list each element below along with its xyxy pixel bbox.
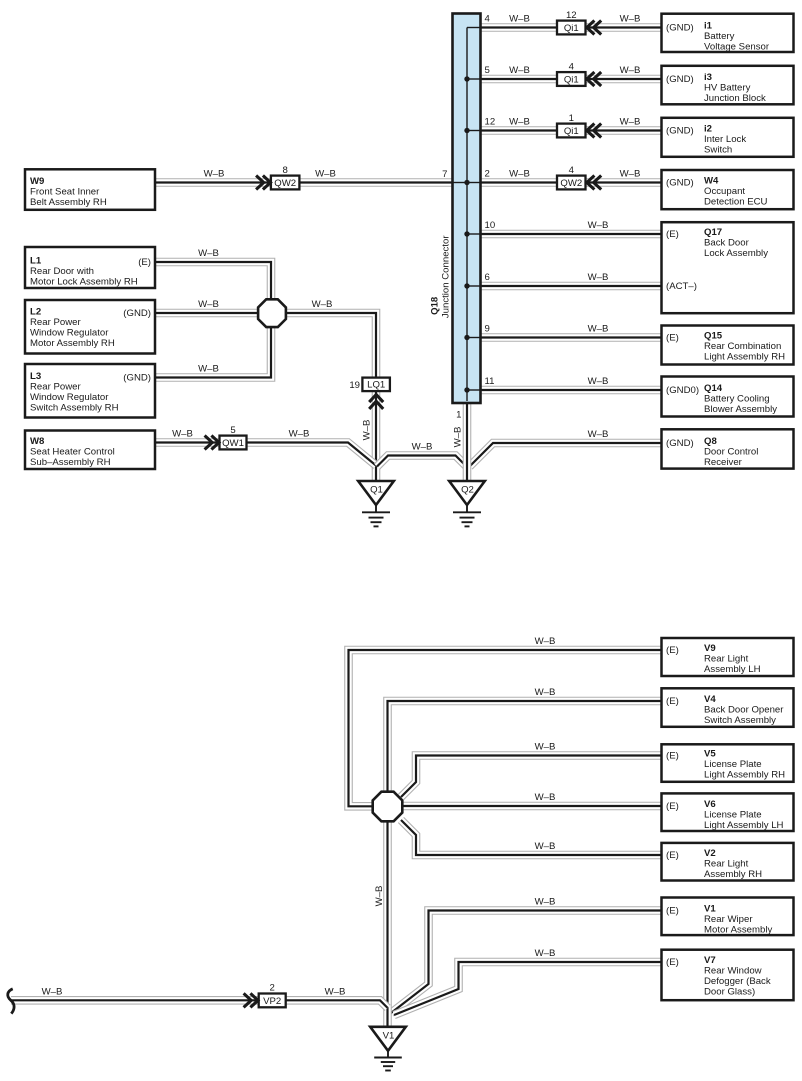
svg-text:(GND): (GND) bbox=[666, 438, 694, 449]
svg-text:W–B: W–B bbox=[535, 792, 556, 803]
svg-text:V1: V1 bbox=[704, 904, 716, 915]
svg-text:L2: L2 bbox=[30, 307, 41, 318]
svg-text:V5: V5 bbox=[704, 749, 716, 760]
connector QW2 pin 8 bbox=[271, 176, 300, 190]
svg-text:W–B: W–B bbox=[588, 429, 609, 440]
svg-text:HV Battery: HV Battery bbox=[704, 83, 751, 94]
svg-text:V2: V2 bbox=[704, 848, 716, 859]
svg-text:W–B: W–B bbox=[412, 442, 433, 453]
svg-text:QW2: QW2 bbox=[274, 178, 296, 189]
svg-text:Motor Assembly RH: Motor Assembly RH bbox=[30, 338, 115, 349]
svg-text:W–B: W–B bbox=[204, 169, 225, 180]
svg-text:Assembly RH: Assembly RH bbox=[704, 869, 762, 880]
svg-text:Q1: Q1 bbox=[370, 485, 383, 496]
svg-text:W–B: W–B bbox=[172, 429, 193, 440]
component W9 Front Seat Inner Belt Assembly RH bbox=[25, 169, 155, 210]
wire V1 to ground V1 bbox=[391, 911, 663, 1014]
chevron arrows Qi1 at row y=130.5 bbox=[587, 124, 601, 138]
component V5 License Plate Light Assembly RH bbox=[662, 744, 794, 782]
svg-text:(E): (E) bbox=[666, 850, 679, 861]
junction dot Q18 pin 10 bbox=[464, 231, 469, 236]
svg-text:Light Assembly LH: Light Assembly LH bbox=[704, 820, 784, 831]
svg-text:W–B: W–B bbox=[535, 841, 556, 852]
svg-text:Lock Assembly: Lock Assembly bbox=[704, 248, 768, 259]
svg-text:Rear Light: Rear Light bbox=[704, 654, 749, 665]
component V9 Rear Light Assembly LH bbox=[662, 638, 794, 676]
svg-text:W–B: W–B bbox=[198, 364, 219, 375]
svg-text:W–B: W–B bbox=[620, 117, 641, 128]
ground point V1 bbox=[370, 1027, 406, 1071]
svg-text:Detection ECU: Detection ECU bbox=[704, 196, 768, 207]
svg-text:W–B: W–B bbox=[588, 272, 609, 283]
svg-text:Light Assembly RH: Light Assembly RH bbox=[704, 769, 785, 780]
svg-text:i2: i2 bbox=[704, 124, 712, 135]
svg-text:Occupant: Occupant bbox=[704, 186, 745, 197]
svg-text:5: 5 bbox=[230, 425, 235, 436]
svg-text:Battery Cooling: Battery Cooling bbox=[704, 393, 770, 404]
junction octagon (V-wires splice) bbox=[373, 792, 403, 822]
svg-text:Q2: Q2 bbox=[461, 485, 474, 496]
svg-text:Q17: Q17 bbox=[704, 227, 722, 238]
svg-text:W–B: W–B bbox=[289, 429, 310, 440]
svg-text:W–B: W–B bbox=[453, 427, 464, 448]
svg-text:6: 6 bbox=[485, 272, 490, 283]
svg-text:Rear Combination: Rear Combination bbox=[704, 341, 781, 352]
svg-text:Front Seat Inner: Front Seat Inner bbox=[30, 186, 100, 197]
wire V4 to bottom octagon bbox=[388, 701, 664, 793]
svg-text:Receiver: Receiver bbox=[704, 457, 743, 468]
junction dot Q18 pin 11 bbox=[464, 387, 469, 392]
svg-text:1: 1 bbox=[456, 410, 461, 421]
svg-text:8: 8 bbox=[283, 165, 288, 176]
svg-text:(ACT–): (ACT–) bbox=[666, 281, 697, 292]
svg-text:W–B: W–B bbox=[509, 117, 530, 128]
svg-text:W–B: W–B bbox=[535, 687, 556, 698]
svg-text:W–B: W–B bbox=[620, 169, 641, 180]
wire Q8 to ground Q2 bbox=[470, 443, 664, 467]
svg-text:Q8: Q8 bbox=[704, 436, 717, 447]
svg-text:1: 1 bbox=[569, 113, 574, 124]
ground point Q2 bbox=[449, 481, 485, 526]
svg-text:W–B: W–B bbox=[374, 886, 385, 907]
Q18 internal stub pin 2 bbox=[467, 182, 481, 184]
svg-text:Voltage Sensor: Voltage Sensor bbox=[704, 41, 770, 52]
junction dot Q18 pin 2/7 bbox=[464, 180, 469, 185]
svg-text:9: 9 bbox=[485, 324, 490, 335]
svg-text:Qi1: Qi1 bbox=[564, 126, 579, 137]
wire V9 to bottom octagon bbox=[349, 650, 664, 806]
svg-text:Rear Window: Rear Window bbox=[704, 966, 762, 977]
chevron arrows LQ1 bbox=[369, 395, 383, 409]
svg-text:2: 2 bbox=[485, 169, 490, 180]
svg-text:(E): (E) bbox=[666, 801, 679, 812]
svg-text:W–B: W–B bbox=[535, 742, 556, 753]
svg-text:(E): (E) bbox=[666, 906, 679, 917]
connector VP2 pin 2 bbox=[259, 994, 286, 1008]
svg-text:19: 19 bbox=[349, 380, 360, 391]
svg-text:12: 12 bbox=[566, 10, 577, 21]
svg-text:(GND): (GND) bbox=[666, 178, 694, 189]
svg-text:Qi1: Qi1 bbox=[564, 23, 579, 34]
connector Qi1 at row y=27.5 bbox=[557, 21, 586, 35]
Q18 internal stub pin 6 bbox=[467, 285, 481, 287]
svg-text:i3: i3 bbox=[704, 72, 712, 83]
svg-text:W–B: W–B bbox=[312, 299, 333, 310]
component i1 Battery Voltage Sensor bbox=[662, 14, 794, 53]
svg-text:2: 2 bbox=[270, 983, 275, 994]
component L1 Rear Door with Motor Lock Assembly RH bbox=[25, 247, 155, 288]
wire Q18 pin 5 to Qi1 to i3 bbox=[479, 75, 664, 84]
svg-text:Rear Power: Rear Power bbox=[30, 381, 81, 392]
svg-text:i1: i1 bbox=[704, 21, 713, 32]
svg-text:(GND): (GND) bbox=[123, 308, 151, 319]
wire W8 to QW1 to ground Q1 bbox=[155, 443, 376, 466]
svg-text:Assembly LH: Assembly LH bbox=[704, 664, 761, 675]
connector LQ1 pin 19 bbox=[362, 378, 390, 392]
svg-text:Back Door Opener: Back Door Opener bbox=[704, 705, 784, 716]
svg-text:(E): (E) bbox=[666, 696, 679, 707]
junction dot Q18 pin 9 bbox=[464, 335, 469, 340]
svg-text:W–B: W–B bbox=[509, 65, 530, 76]
svg-text:V4: V4 bbox=[704, 694, 716, 705]
svg-text:Window Regulator: Window Regulator bbox=[30, 392, 109, 403]
svg-text:12: 12 bbox=[485, 117, 496, 128]
wire W9 to QW2 to Q18 pin 7 bbox=[155, 178, 455, 187]
connector QW2 at row y=182.5 bbox=[557, 176, 586, 190]
svg-text:Light Assembly RH: Light Assembly RH bbox=[704, 351, 785, 362]
component Q8 Door Control Receiver bbox=[662, 429, 794, 468]
svg-text:W–B: W–B bbox=[362, 420, 373, 441]
component Q17 Back Door Lock Assembly bbox=[662, 222, 794, 313]
Q18 internal stub pin 9 bbox=[467, 337, 481, 339]
svg-text:W–B: W–B bbox=[620, 65, 641, 76]
svg-text:Switch Assembly RH: Switch Assembly RH bbox=[30, 402, 119, 413]
Q18 internal stub pin 11 bbox=[467, 389, 481, 391]
chevron arrows Qi1 at row y=27.5 bbox=[587, 21, 601, 35]
svg-text:Door Control: Door Control bbox=[704, 446, 758, 457]
wire Q18 pin 6 to Q17 (ACT-) bbox=[479, 282, 664, 291]
junction octagon (L1/L2/L3 splice) bbox=[258, 299, 286, 327]
svg-text:Q15: Q15 bbox=[704, 331, 723, 342]
Q18 internal stub pin 5 bbox=[467, 78, 481, 80]
wire V2 to bottom octagon bbox=[401, 820, 663, 855]
svg-text:Rear Door with: Rear Door with bbox=[30, 266, 94, 277]
svg-text:4: 4 bbox=[569, 61, 575, 72]
wire V5 to bottom octagon bbox=[401, 756, 663, 798]
svg-text:Junction Connector: Junction Connector bbox=[441, 235, 452, 318]
svg-text:Inter Lock: Inter Lock bbox=[704, 134, 746, 145]
svg-text:W–B: W–B bbox=[535, 636, 556, 647]
svg-text:Q14: Q14 bbox=[704, 383, 723, 394]
svg-text:Blower Assembly: Blower Assembly bbox=[704, 404, 777, 415]
svg-text:(GND): (GND) bbox=[666, 126, 694, 137]
component W4 Occupant Detection ECU bbox=[662, 170, 794, 209]
component V1 Rear Wiper Motor Assembly bbox=[662, 898, 794, 936]
wire Q18 pin 11 to Q14 bbox=[479, 386, 664, 395]
component Q15 Rear Combination Light Assembly RH bbox=[662, 326, 794, 365]
svg-text:W–B: W–B bbox=[509, 169, 530, 180]
component i2 Inter Lock Switch bbox=[662, 118, 794, 157]
svg-text:Battery: Battery bbox=[704, 31, 735, 42]
svg-text:(GND): (GND) bbox=[666, 23, 694, 34]
svg-text:W–B: W–B bbox=[42, 987, 63, 998]
svg-text:(E): (E) bbox=[138, 257, 151, 268]
svg-text:10: 10 bbox=[485, 220, 496, 231]
svg-text:W–B: W–B bbox=[315, 169, 336, 180]
svg-text:License Plate: License Plate bbox=[704, 759, 762, 770]
Q18 internal stub pin 4 bbox=[467, 27, 481, 29]
svg-text:(GND): (GND) bbox=[123, 373, 151, 384]
svg-text:V1: V1 bbox=[383, 1030, 395, 1041]
component V2 Rear Light Assembly RH bbox=[662, 843, 794, 881]
svg-text:5: 5 bbox=[485, 65, 490, 76]
svg-text:QW2: QW2 bbox=[560, 178, 582, 189]
connector Qi1 at row y=130.5 bbox=[557, 124, 586, 138]
svg-text:4: 4 bbox=[569, 165, 575, 176]
wire LQ1 to ground Q1 bbox=[372, 391, 381, 482]
connector QW1 pin 5 bbox=[220, 436, 247, 450]
svg-text:Seat Heater Control: Seat Heater Control bbox=[30, 446, 115, 457]
wire Q18 pin 10 to Q17 (E) bbox=[479, 230, 664, 239]
wire Q18 pin 9 to Q15 bbox=[479, 333, 664, 342]
junction connector Q18 bar bbox=[453, 14, 481, 404]
connector Qi1 at row y=79.0 bbox=[557, 72, 586, 86]
component i3 HV Battery Junction Block bbox=[662, 66, 794, 105]
chevron arrows Qi1 at row y=79.0 bbox=[587, 72, 601, 86]
svg-text:Motor Assembly: Motor Assembly bbox=[704, 924, 772, 935]
chevron arrows QW1 bbox=[205, 436, 219, 450]
svg-text:LQ1: LQ1 bbox=[367, 380, 385, 391]
component Q14 Battery Cooling Blower Assembly bbox=[662, 377, 794, 417]
svg-text:V7: V7 bbox=[704, 955, 716, 966]
svg-text:Defogger (Back: Defogger (Back bbox=[704, 976, 771, 987]
junction dot Q18 pin 6 bbox=[464, 283, 469, 288]
svg-text:L1: L1 bbox=[30, 256, 42, 267]
chevron arrows VP2 bbox=[244, 993, 258, 1007]
svg-text:W–B: W–B bbox=[198, 248, 219, 259]
svg-text:Q18: Q18 bbox=[430, 296, 441, 315]
component V4 Back Door Opener Switch Assembly bbox=[662, 688, 794, 727]
wire octagon to LQ1 bbox=[285, 313, 377, 379]
svg-text:(GND): (GND) bbox=[666, 74, 694, 85]
junction dot Q18 pin 12 bbox=[464, 128, 469, 133]
wire bottom octagon to ground V1 bbox=[383, 820, 392, 1028]
svg-text:Window Regulator: Window Regulator bbox=[30, 327, 109, 338]
component L2 Rear Power Window Regulator Motor Assembly RH bbox=[25, 300, 155, 354]
Q18 internal stub pin 7 bbox=[453, 182, 468, 184]
component W8 Seat Heater Control Sub-Assembly RH bbox=[25, 431, 155, 470]
svg-text:L3: L3 bbox=[30, 371, 41, 382]
svg-text:Belt Assembly RH: Belt Assembly RH bbox=[30, 197, 107, 208]
wire tie Q1 to Q2 bbox=[377, 456, 467, 467]
svg-text:W–B: W–B bbox=[588, 324, 609, 335]
svg-text:V6: V6 bbox=[704, 799, 716, 810]
junction dot Q18 pin 5 bbox=[464, 76, 469, 81]
svg-text:VP2: VP2 bbox=[263, 996, 281, 1007]
svg-text:(E): (E) bbox=[666, 957, 679, 968]
wire V6 to bottom octagon bbox=[401, 802, 663, 811]
wire L1 to junction octagon bbox=[155, 262, 271, 301]
svg-text:Switch: Switch bbox=[704, 144, 732, 155]
wire Q18 pin 12 to Qi1 to i2 bbox=[479, 126, 664, 135]
svg-text:W9: W9 bbox=[30, 176, 44, 187]
svg-text:Rear Wiper: Rear Wiper bbox=[704, 914, 753, 925]
svg-text:V9: V9 bbox=[704, 643, 716, 654]
wire-break symbol at left edge bbox=[8, 989, 14, 1014]
svg-text:W–B: W–B bbox=[198, 299, 219, 310]
component V7 Rear Window Defogger bbox=[662, 950, 794, 1001]
Q18 internal stub pin 10 bbox=[467, 233, 481, 235]
svg-text:W–B: W–B bbox=[588, 220, 609, 231]
wire Q18 pin 2 to QW2 to W4 bbox=[479, 178, 664, 187]
svg-text:Rear Light: Rear Light bbox=[704, 859, 749, 870]
wire V7 to ground V1 bbox=[394, 962, 663, 1015]
svg-text:License Plate: License Plate bbox=[704, 810, 762, 821]
svg-text:(E): (E) bbox=[666, 333, 679, 344]
svg-text:Motor Lock Assembly RH: Motor Lock Assembly RH bbox=[30, 276, 138, 287]
wire L2 to junction octagon bbox=[155, 309, 260, 318]
svg-text:Door Glass): Door Glass) bbox=[704, 986, 755, 997]
chevron arrows QW2 at row y=182.5 bbox=[587, 176, 601, 190]
svg-text:4: 4 bbox=[485, 14, 491, 25]
svg-text:(E): (E) bbox=[666, 229, 679, 240]
wire L3 to junction octagon bbox=[155, 326, 271, 378]
svg-text:Sub–Assembly RH: Sub–Assembly RH bbox=[30, 457, 111, 468]
wire Q18 pin 4 to Qi1 to i1 bbox=[479, 23, 664, 32]
svg-text:W–B: W–B bbox=[325, 987, 346, 998]
component V6 License Plate Light Assembly LH bbox=[662, 793, 794, 831]
svg-text:W4: W4 bbox=[704, 176, 719, 187]
wire VP2 to ground V1 bbox=[11, 1000, 388, 1008]
component L3 Rear Power Window Regulator Switch Assembly RH bbox=[25, 364, 155, 418]
svg-text:(GND0): (GND0) bbox=[666, 385, 699, 396]
svg-text:Switch Assembly: Switch Assembly bbox=[704, 715, 776, 726]
Q18 internal bus wire bbox=[466, 28, 468, 402]
svg-text:(E): (E) bbox=[666, 645, 679, 656]
chevron arrows QW2 pin 8 bbox=[256, 176, 270, 190]
ground point Q1 bbox=[358, 481, 394, 526]
svg-text:Qi1: Qi1 bbox=[564, 74, 579, 85]
svg-text:W–B: W–B bbox=[509, 14, 530, 25]
wire Q18 pin 1 to ground Q2 bbox=[463, 400, 472, 482]
svg-text:Junction Block: Junction Block bbox=[704, 93, 766, 104]
svg-text:W–B: W–B bbox=[535, 897, 556, 908]
svg-text:11: 11 bbox=[485, 376, 495, 387]
svg-text:7: 7 bbox=[442, 169, 447, 180]
svg-text:W8: W8 bbox=[30, 436, 45, 447]
Q18 internal stub pin 12 bbox=[467, 130, 481, 132]
svg-text:W–B: W–B bbox=[620, 14, 641, 25]
svg-text:QW1: QW1 bbox=[222, 438, 244, 449]
svg-text:W–B: W–B bbox=[588, 376, 609, 387]
svg-text:Rear Power: Rear Power bbox=[30, 317, 81, 328]
svg-text:Back Door: Back Door bbox=[704, 237, 750, 248]
svg-text:W–B: W–B bbox=[535, 948, 556, 959]
svg-text:(E): (E) bbox=[666, 751, 679, 762]
